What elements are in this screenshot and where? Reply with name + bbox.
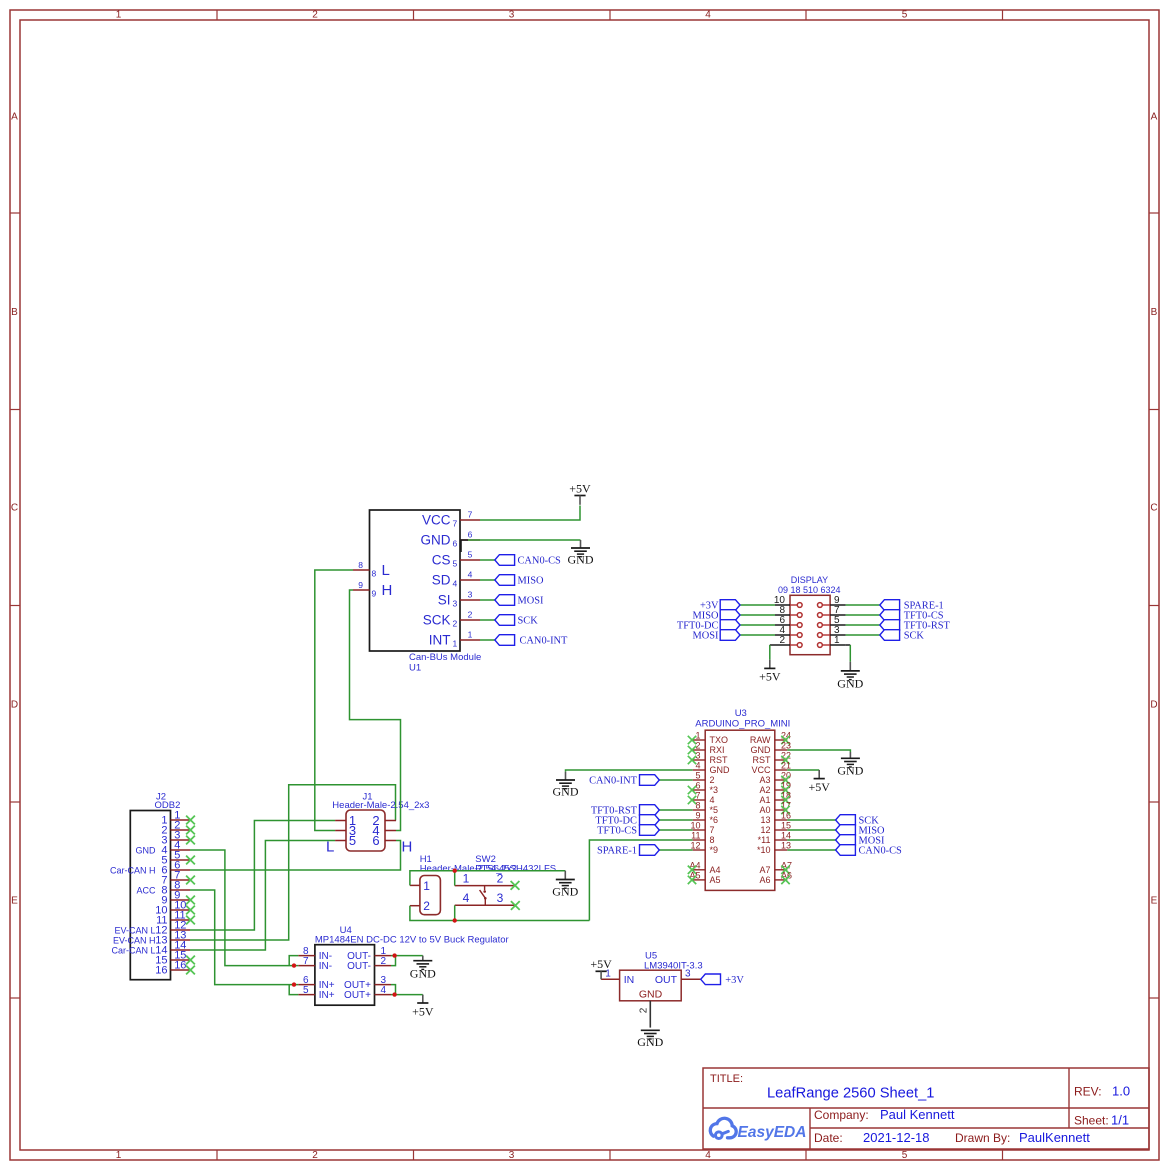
net label MISO	[836, 825, 885, 837]
connector J2 ODB2	[110, 792, 195, 980]
net label CAN0-INT	[589, 775, 659, 787]
svg-text:4: 4	[705, 10, 711, 21]
wire U4 IN+ bracket	[289, 985, 298, 995]
svg-text:13: 13	[781, 841, 791, 851]
svg-text:C: C	[1150, 503, 1157, 514]
svg-text:B: B	[11, 307, 18, 318]
svg-text:Company:: Company:	[814, 1108, 869, 1122]
svg-text:CAN0-INT: CAN0-INT	[520, 636, 569, 647]
svg-text:ARDUINO_PRO_MINI: ARDUINO_PRO_MINI	[695, 718, 790, 729]
svg-text:15: 15	[781, 821, 791, 831]
wire DISPLAY left to net TFT0-DC	[740, 624, 775, 626]
svg-text:2: 2	[779, 635, 785, 646]
svg-text:09 18 510 6324: 09 18 510 6324	[778, 585, 841, 595]
net label SCK	[880, 630, 925, 642]
wire DISPLAY left to net +3V	[740, 604, 775, 606]
svg-text:TITLE:: TITLE:	[710, 1073, 743, 1085]
svg-text:MISO: MISO	[518, 576, 544, 587]
svg-text:MP1484EN DC-DC 12V to 5V Buck: MP1484EN DC-DC 12V to 5V Buck Regulator	[315, 935, 509, 946]
svg-text:*6: *6	[710, 815, 719, 825]
svg-text:1: 1	[463, 872, 470, 886]
svg-text:A5: A5	[710, 875, 721, 885]
svg-text:1: 1	[695, 731, 700, 741]
svg-text:+5V: +5V	[759, 670, 781, 684]
svg-text:B: B	[1151, 307, 1158, 318]
svg-text:Car-CAN H: Car-CAN H	[110, 866, 156, 876]
svg-text:*3: *3	[710, 785, 719, 795]
junction (SW2 top)	[453, 869, 457, 873]
wire U1 pin to net MOSI	[480, 599, 495, 601]
svg-text:*5: *5	[710, 805, 719, 815]
svg-text:RXI: RXI	[710, 745, 725, 755]
svg-text:VCC: VCC	[751, 765, 771, 775]
svg-text:5: 5	[468, 550, 473, 560]
wire DISPLAY right to net SPARE-1	[846, 604, 880, 606]
wire U4 OUT+ to +5V	[391, 985, 423, 995]
net label MOSI	[836, 835, 885, 847]
svg-text:2: 2	[695, 741, 700, 751]
svg-text:IN-: IN-	[319, 961, 332, 972]
svg-text:1: 1	[834, 635, 840, 646]
svg-text:PTS645SH432LFS: PTS645SH432LFS	[475, 864, 556, 875]
net label MISO	[693, 610, 740, 622]
svg-text:4: 4	[453, 579, 458, 589]
svg-text:2: 2	[312, 1150, 318, 1161]
svg-text:2021-12-18: 2021-12-18	[863, 1130, 930, 1145]
svg-text:A3: A3	[759, 775, 770, 785]
wire DISPLAY.2 to +5V	[770, 645, 775, 660]
svg-text:Car-CAN L: Car-CAN L	[111, 946, 155, 956]
svg-text:6: 6	[695, 781, 700, 791]
svg-text:1: 1	[116, 1150, 122, 1161]
svg-text:CAN0-CS: CAN0-CS	[859, 846, 903, 857]
svg-text:MOSI: MOSI	[518, 596, 545, 607]
svg-text:L: L	[326, 839, 334, 856]
wire U4 OUT- to GND	[391, 956, 423, 966]
svg-text:*10: *10	[757, 845, 771, 855]
svg-text:2: 2	[710, 775, 715, 785]
svg-text:EasyEDA: EasyEDA	[738, 1124, 807, 1141]
svg-text:SPARE-1: SPARE-1	[597, 846, 637, 857]
svg-text:2: 2	[468, 610, 473, 620]
svg-text:A: A	[1151, 112, 1158, 123]
svg-text:5: 5	[453, 559, 458, 569]
svg-text:13: 13	[760, 815, 770, 825]
svg-text:GND: GND	[837, 763, 863, 777]
svg-text:H: H	[402, 839, 413, 856]
svg-text:IN: IN	[624, 974, 635, 986]
svg-text:H: H	[382, 582, 393, 599]
svg-text:Drawn By:: Drawn By:	[955, 1131, 1010, 1145]
net label TFT0-DC	[677, 620, 740, 632]
svg-text:MOSI: MOSI	[693, 631, 720, 642]
wire U3 pin to net CAN0-CS	[787, 849, 835, 851]
svg-text:*9: *9	[710, 845, 719, 855]
title block	[703, 1068, 1149, 1149]
svg-text:16: 16	[781, 811, 791, 821]
svg-text:Paul Kennett: Paul Kennett	[880, 1107, 955, 1122]
net label SPARE-1	[597, 845, 659, 857]
wire U1.8 L to J1.3	[315, 570, 353, 831]
svg-text:6: 6	[468, 530, 473, 540]
svg-text:C: C	[11, 503, 18, 514]
svg-text:+5V: +5V	[808, 780, 830, 794]
svg-text:*11: *11	[758, 835, 771, 845]
power +5V (U4)	[412, 995, 434, 1019]
IC U3 ARDUINO PRO MINI	[688, 708, 792, 890]
svg-text:A2: A2	[759, 785, 770, 795]
svg-text:4: 4	[381, 985, 387, 996]
svg-text:5: 5	[695, 771, 700, 781]
svg-text:SI: SI	[438, 593, 451, 608]
svg-text:3: 3	[685, 968, 691, 979]
net label MISO	[495, 575, 544, 587]
connector H1 Header-Male-2.54_1x2	[410, 854, 517, 915]
net label SCK	[836, 815, 880, 827]
svg-text:4: 4	[463, 891, 470, 905]
svg-text:GND: GND	[637, 1035, 663, 1049]
net label CAN0-CS	[836, 845, 902, 857]
svg-text:1: 1	[423, 879, 430, 893]
wire U3.23 GND	[787, 750, 850, 752]
svg-text:RST: RST	[710, 755, 729, 765]
wire U3 pin to net MISO	[787, 829, 835, 831]
svg-text:SCK: SCK	[423, 613, 451, 628]
ground GND (U4)	[410, 956, 436, 981]
svg-text:1.0: 1.0	[1112, 1084, 1130, 1099]
ground GND (U5)	[637, 1030, 663, 1049]
ground GND (DISPLAY)	[837, 662, 863, 691]
svg-text:21: 21	[781, 761, 791, 771]
svg-text:9: 9	[695, 811, 700, 821]
net label TFT0-DC	[595, 815, 659, 827]
svg-text:TXO: TXO	[710, 735, 729, 745]
wire J2.4 GND to U4 IN-	[190, 850, 298, 966]
svg-text:RAW: RAW	[750, 735, 771, 745]
svg-text:10: 10	[690, 821, 700, 831]
wire H1.2 SW2.4 to U3 pin 8	[410, 840, 693, 921]
junction (U4 OUT-)	[392, 953, 396, 957]
svg-text:16: 16	[174, 960, 186, 972]
svg-text:A7: A7	[759, 865, 770, 875]
svg-text:SD: SD	[432, 573, 451, 588]
wire J2.13 EV-CAN H to J1.2	[190, 785, 396, 940]
svg-text:7: 7	[468, 510, 473, 520]
svg-text:8: 8	[710, 835, 715, 845]
net label TFT0-CS	[597, 825, 659, 837]
svg-text:3: 3	[509, 10, 515, 21]
wire U3 pin to net SPARE-1	[659, 849, 692, 851]
junction (U4 IN-)	[292, 963, 296, 967]
svg-text:7: 7	[303, 956, 309, 967]
svg-text:GND: GND	[553, 785, 579, 799]
svg-text:GND: GND	[568, 553, 594, 567]
svg-text:D: D	[11, 700, 18, 711]
wire DISPLAY left to net MISO	[740, 614, 775, 616]
wire U1.9 H to J1.4	[350, 590, 401, 831]
power +5V (top)	[569, 481, 591, 505]
svg-text:+3V: +3V	[725, 975, 744, 986]
svg-text:2: 2	[453, 619, 458, 629]
svg-text:A1: A1	[759, 795, 770, 805]
IC U5 LM3940IT-3.3	[601, 951, 703, 1028]
svg-text:Can-BUs Module: Can-BUs Module	[409, 652, 481, 663]
svg-text:3: 3	[468, 590, 473, 600]
svg-text:2: 2	[423, 899, 430, 913]
wire U1 pin to net MISO	[480, 579, 495, 581]
net label CAN0-CS	[495, 555, 561, 567]
wire U3 pin to net SCK	[787, 819, 835, 821]
svg-text:GND: GND	[410, 967, 436, 981]
svg-text:12: 12	[760, 825, 770, 835]
svg-text:EV-CAN H: EV-CAN H	[113, 936, 156, 946]
ground GND (U1.6)	[568, 540, 594, 567]
svg-text:1: 1	[116, 10, 122, 21]
wire U3 pin to net TFT0-CS	[659, 829, 692, 831]
svg-text:CAN0-INT: CAN0-INT	[589, 776, 638, 787]
svg-text:GND: GND	[136, 846, 157, 856]
svg-text:6: 6	[372, 833, 379, 848]
svg-text:11: 11	[691, 831, 700, 841]
svg-text:A4: A4	[710, 865, 721, 875]
junction (SW2 bottom)	[453, 918, 457, 922]
junction (U4 IN+)	[292, 982, 296, 986]
svg-text:7: 7	[453, 519, 458, 529]
wire U3.4 GND	[566, 770, 693, 772]
wire H1.1 SW2.1 net (top)	[410, 871, 565, 886]
svg-text:D: D	[1150, 700, 1157, 711]
svg-text:8: 8	[372, 569, 377, 579]
svg-text:INT: INT	[429, 633, 451, 648]
wire U1.7 VCC to +5V	[480, 506, 580, 521]
wire U1 pin to net CAN0-CS	[480, 559, 495, 561]
wire DISPLAY right to net TFT0-CS	[846, 614, 880, 616]
power +5V (U5 in)	[590, 957, 612, 979]
wire DISPLAY right to net SCK	[846, 634, 880, 636]
svg-text:OUT: OUT	[655, 974, 678, 986]
svg-text:L: L	[382, 562, 390, 579]
IC U1 Can-BUs Module	[353, 510, 481, 674]
svg-text:IN+: IN+	[319, 990, 335, 1001]
svg-text:3: 3	[509, 1150, 515, 1161]
svg-text:SCK: SCK	[518, 616, 539, 627]
svg-text:5: 5	[303, 985, 309, 996]
svg-text:RST: RST	[753, 755, 772, 765]
svg-text:5: 5	[902, 10, 908, 21]
svg-text:Sheet:: Sheet:	[1074, 1114, 1109, 1128]
switch SW2 PTS645SH432LFS	[455, 854, 556, 910]
svg-text:E: E	[11, 896, 18, 907]
wire U1 pin to net SCK	[480, 619, 495, 621]
svg-text:2: 2	[639, 1007, 650, 1013]
svg-text:6: 6	[453, 539, 458, 549]
svg-text:14: 14	[781, 831, 791, 841]
wire J2.14 Car-CAN L to J1.5	[190, 841, 335, 951]
svg-text:REV:: REV:	[1074, 1085, 1102, 1099]
svg-text:4: 4	[695, 761, 700, 771]
net label TFT0-RST	[880, 620, 951, 632]
svg-text:7: 7	[710, 825, 715, 835]
svg-text:A: A	[11, 112, 18, 123]
svg-text:GND: GND	[710, 765, 731, 775]
svg-text:Date:: Date:	[814, 1131, 843, 1145]
wire U4 IN- bracket	[289, 956, 298, 966]
svg-text:TFT0-CS: TFT0-CS	[597, 826, 637, 837]
svg-text:EV-CAN L: EV-CAN L	[114, 926, 155, 936]
power +5V (U3)	[808, 770, 830, 794]
svg-text:CS: CS	[432, 553, 451, 568]
net label SPARE-1	[880, 600, 944, 612]
svg-text:12: 12	[690, 841, 700, 851]
svg-text:GND: GND	[552, 885, 578, 899]
svg-text:+5V: +5V	[412, 1004, 434, 1018]
svg-text:OUT-: OUT-	[347, 961, 371, 972]
net label TFT0-RST	[591, 805, 659, 817]
wire U3 pin to net CAN0-INT	[659, 779, 692, 781]
svg-text:CAN0-CS: CAN0-CS	[518, 556, 562, 567]
svg-text:4: 4	[705, 1150, 711, 1161]
svg-text:OUT+: OUT+	[344, 990, 371, 1001]
svg-text:4: 4	[468, 570, 473, 580]
svg-text:ACC: ACC	[136, 886, 156, 896]
svg-text:8: 8	[358, 560, 363, 570]
svg-text:+5V: +5V	[569, 481, 591, 495]
wire J2.12 EV-CAN L to J1.1	[190, 821, 335, 931]
svg-text:GND: GND	[421, 533, 451, 548]
svg-text:2: 2	[312, 10, 318, 21]
wire U3.21 VCC to +5V	[787, 769, 819, 771]
ground GND (U3 left)	[553, 772, 579, 799]
wire U3 pin to net MOSI	[787, 839, 835, 841]
net label MOSI	[495, 595, 544, 607]
connector DISPLAY 09 18 510 6324	[774, 575, 846, 655]
IC U4 MP1484EN	[298, 925, 508, 1005]
svg-text:4: 4	[710, 795, 715, 805]
svg-text:2: 2	[381, 956, 387, 967]
svg-text:3: 3	[695, 751, 700, 761]
svg-text:8: 8	[695, 801, 700, 811]
svg-text:5: 5	[902, 1150, 908, 1161]
EasyEDA logo	[710, 1118, 806, 1141]
power +5V (DISPLAY)	[759, 660, 781, 684]
net label CAN0-INT	[495, 635, 568, 647]
wire U1 pin to net CAN0-INT	[480, 639, 495, 641]
svg-text:U1: U1	[409, 663, 421, 674]
wire J2.6 Car-CAN H to J1.6	[190, 841, 401, 871]
net label +3V (U5 out)	[701, 974, 745, 986]
svg-text:A0: A0	[759, 805, 770, 815]
svg-text:2: 2	[497, 872, 504, 886]
wire U3 pin to net TFT0-DC	[659, 819, 692, 821]
wire DISPLAY left to net MOSI	[740, 634, 775, 636]
svg-text:23: 23	[781, 741, 791, 751]
svg-text:1: 1	[468, 630, 473, 640]
svg-text:3: 3	[453, 599, 458, 609]
net label TFT0-CS	[880, 610, 944, 622]
svg-text:GND: GND	[751, 745, 772, 755]
svg-text:LeafRange 2560 Sheet_1: LeafRange 2560 Sheet_1	[767, 1086, 934, 1102]
svg-text:GND: GND	[837, 677, 863, 691]
svg-text:9: 9	[372, 589, 377, 599]
svg-text:16: 16	[155, 965, 167, 977]
svg-text:1/1: 1/1	[1111, 1113, 1129, 1128]
svg-text:GND: GND	[639, 989, 663, 1001]
svg-text:5: 5	[349, 833, 356, 848]
connector J1 Header-Male-2.54_2x3	[326, 792, 429, 856]
wire U3 pin to net TFT0-RST	[659, 809, 692, 811]
svg-text:9: 9	[358, 580, 363, 590]
svg-text:VCC: VCC	[422, 513, 451, 528]
ground GND (SW2)	[552, 871, 578, 899]
svg-text:Header-Male-2.54_2x3: Header-Male-2.54_2x3	[332, 800, 429, 811]
svg-text:1: 1	[453, 639, 458, 649]
svg-text:7: 7	[695, 791, 700, 801]
svg-text:3: 3	[497, 891, 504, 905]
svg-text:LM3940IT-3.3: LM3940IT-3.3	[644, 960, 703, 971]
svg-text:A6: A6	[759, 875, 770, 885]
net label SCK	[495, 615, 538, 627]
svg-text:+5V: +5V	[590, 957, 612, 971]
svg-text:SCK: SCK	[904, 631, 925, 642]
net label +3V	[700, 600, 740, 612]
wire DISPLAY right to net TFT0-RST	[846, 624, 880, 626]
svg-text:E: E	[1151, 896, 1158, 907]
ground GND (U3 right)	[837, 752, 863, 777]
net label MOSI	[693, 630, 740, 642]
junction (U4 OUT+)	[392, 992, 396, 996]
wire DISPLAY.1 to GND	[846, 645, 851, 662]
wire U1.6 GND	[460, 540, 581, 552]
wire J2.8 ACC to U4 IN+	[190, 890, 298, 985]
svg-text:PaulKennett: PaulKennett	[1019, 1130, 1090, 1145]
svg-text:DISPLAY: DISPLAY	[791, 575, 828, 585]
